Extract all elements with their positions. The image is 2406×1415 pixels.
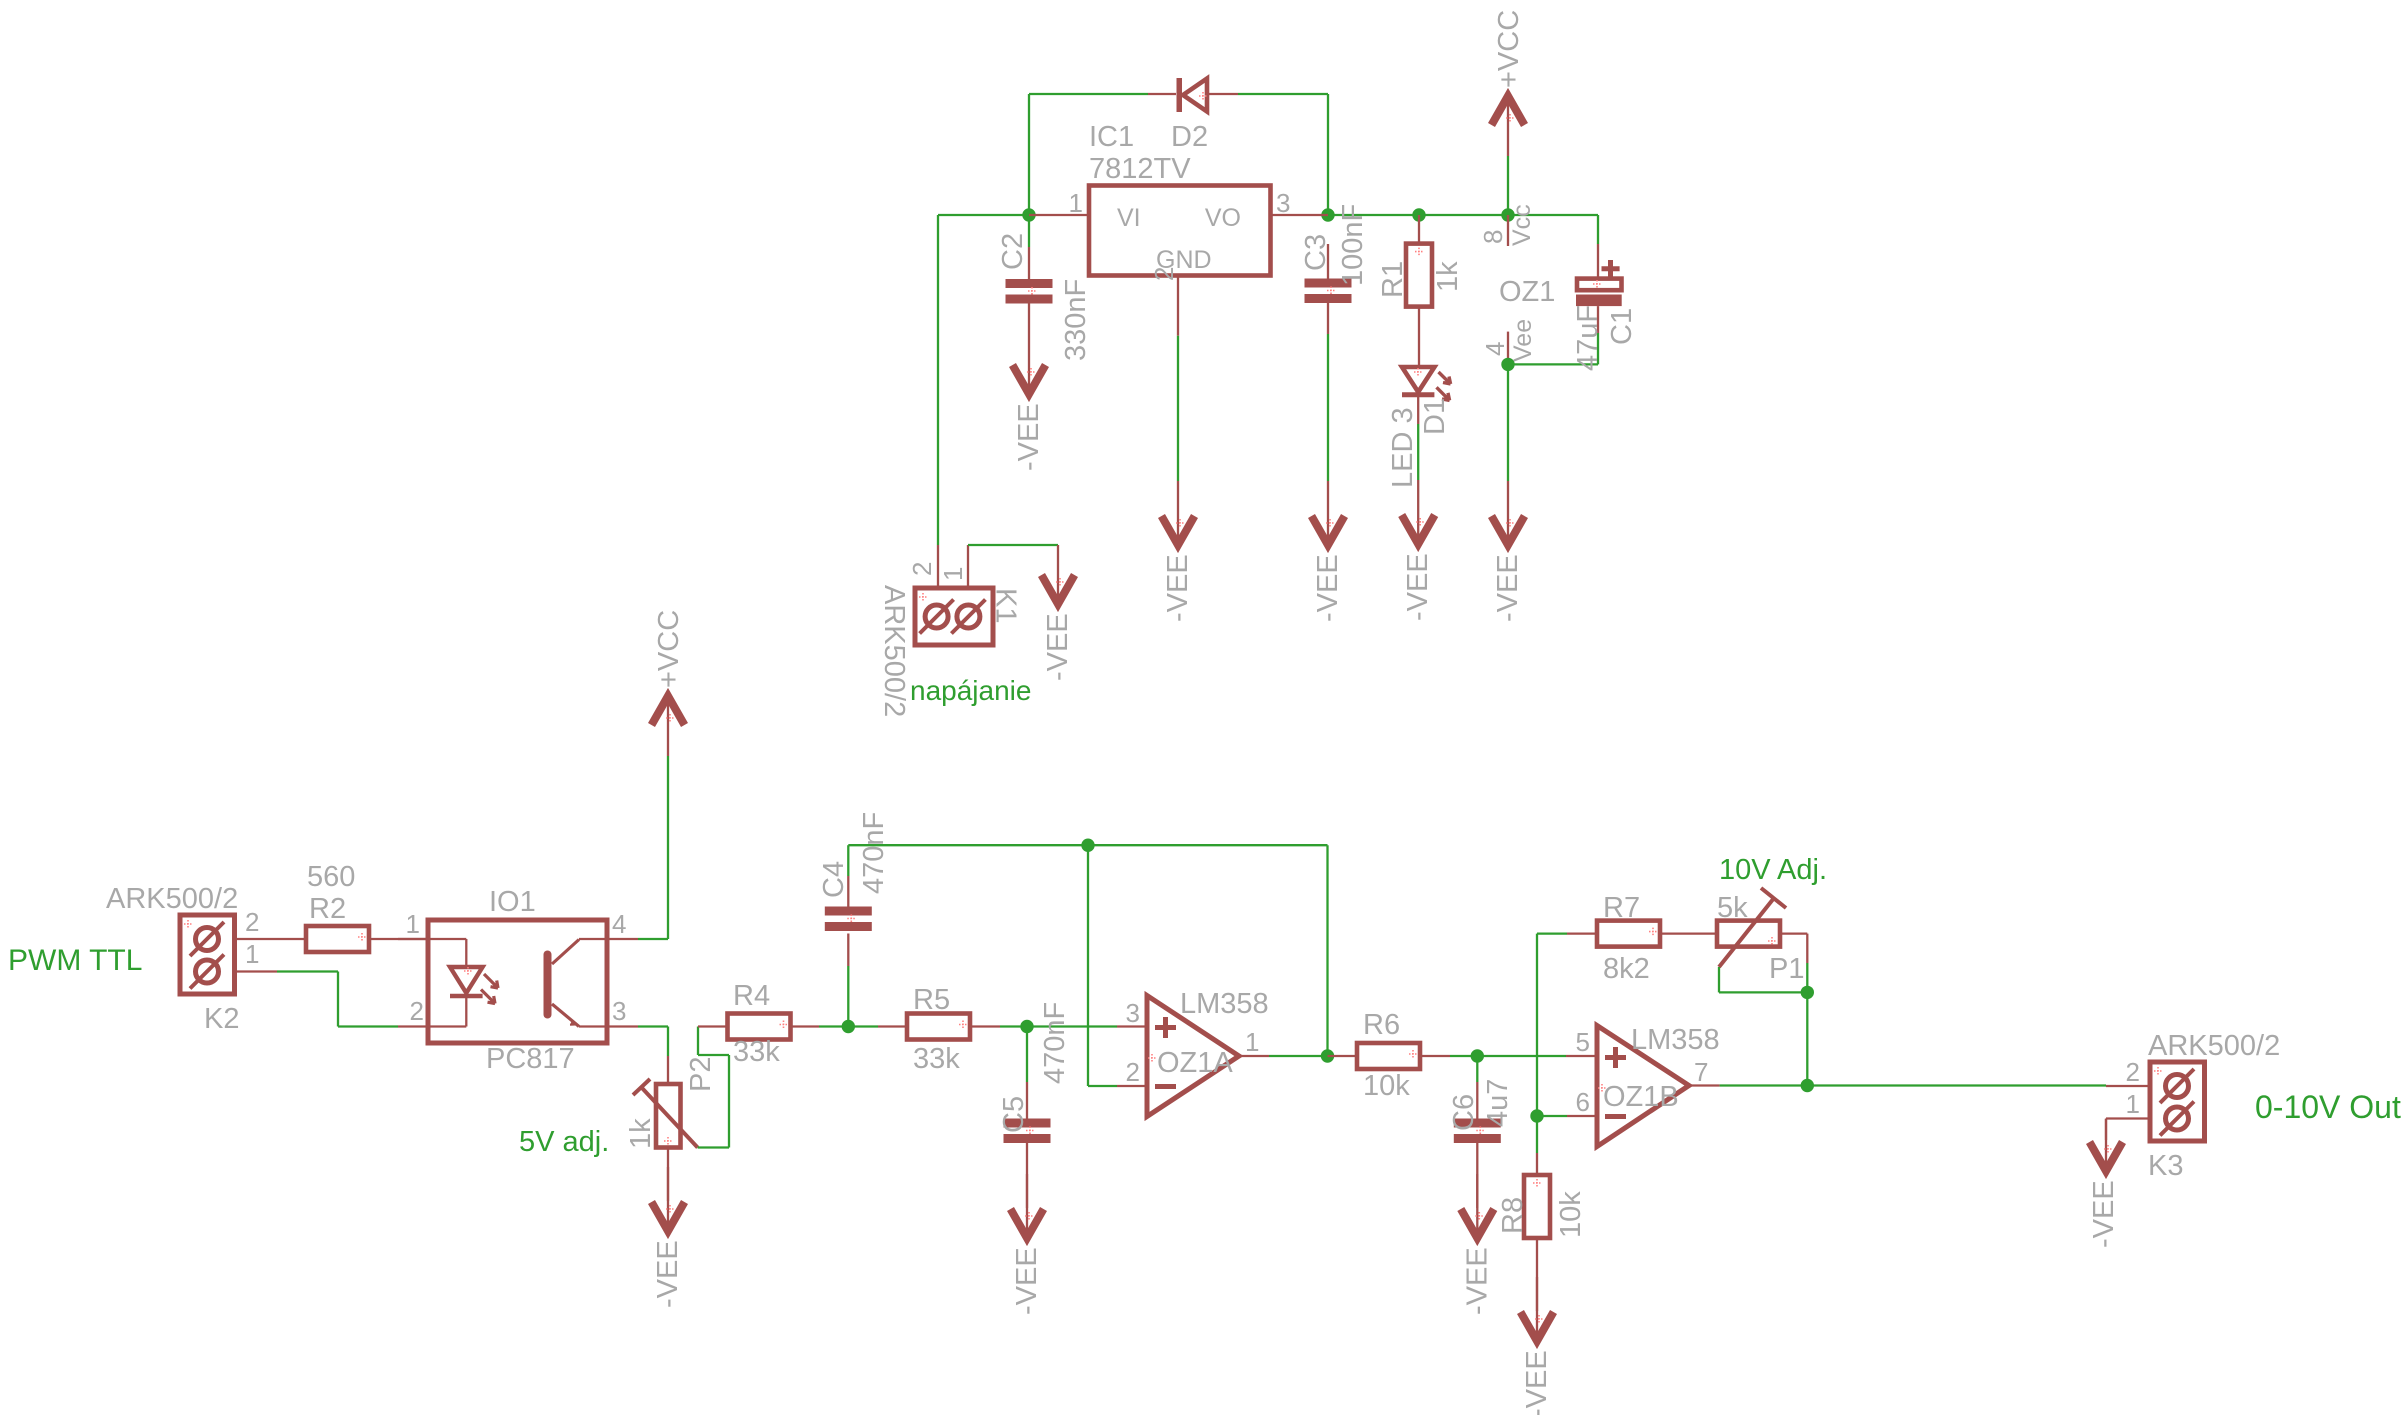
svg-text:5V adj.: 5V adj. (519, 1126, 609, 1158)
svg-text:-VEE: -VEE (1521, 1350, 1553, 1415)
supply -VEE below C3 (1312, 481, 1345, 622)
junction VIN node at IC1 pin1 (1022, 208, 1035, 221)
junction P1 node (1801, 986, 1814, 999)
svg-text:VI: VI (1117, 204, 1141, 232)
svg-text:33k: 33k (733, 1036, 780, 1068)
wire P1 wiper net (1719, 967, 1807, 992)
wire net +12V from D2 cathode to VO junction (1238, 94, 1328, 215)
svg-text:1: 1 (245, 939, 259, 969)
capacitor C4 bottom lead (847, 934, 849, 967)
resistor R8 bottom lead (1536, 1238, 1538, 1311)
svg-text:2: 2 (245, 907, 259, 937)
capacitor C2 330nF (1028, 247, 1030, 330)
svg-text:-VEE: -VEE (1402, 553, 1434, 621)
OZ1 power pin 8 Vcc (1478, 204, 1536, 246)
resistor R7 8k2 (1597, 892, 1660, 985)
svg-text:R2: R2 (309, 893, 346, 925)
optocoupler IO1 PC817 (398, 886, 638, 1075)
label napajanie (910, 675, 1031, 706)
wire net VIN from K1 pin2 up to IC1 input node (938, 215, 1029, 545)
svg-text:2: 2 (907, 562, 937, 576)
wire VIN stub down to C2 (1028, 215, 1030, 247)
svg-text:R4: R4 (733, 980, 770, 1012)
svg-text:3: 3 (1276, 188, 1290, 218)
svg-text:-VEE: -VEE (1312, 554, 1344, 622)
svg-text:6: 6 (1576, 1087, 1590, 1117)
wire feedback right leg down (1326, 845, 1328, 1056)
junction +12V at VO (1321, 208, 1334, 221)
svg-text:P2: P2 (685, 1057, 717, 1092)
svg-text:0-10V Out: 0-10V Out (2255, 1089, 2401, 1125)
svg-text:2: 2 (1149, 267, 1179, 281)
svg-text:R5: R5 (913, 984, 950, 1016)
wire R5 to op-amp pin3 (1000, 1025, 1117, 1027)
svg-text:R7: R7 (1603, 892, 1640, 924)
capacitor C6 plates (1448, 1079, 1514, 1143)
svg-text:IO1: IO1 (489, 886, 536, 918)
wire R7 to P1 (1660, 932, 1717, 934)
svg-text:IC1: IC1 (1089, 121, 1134, 153)
svg-text:OZ1: OZ1 (1499, 276, 1555, 308)
wire Vee node down to -VEE (1507, 364, 1509, 481)
wire +VCC riser (1507, 156, 1509, 215)
junction node B (R5/C5/+in) (1020, 1020, 1033, 1033)
supply -VEE below C5 (1011, 1174, 1044, 1315)
resistor R7 left stub (1567, 932, 1597, 934)
junction +12V at OZ1 Vcc (1501, 208, 1514, 221)
capacitor C6 bottom lead (1476, 1143, 1478, 1208)
svg-text:-VEE: -VEE (1013, 403, 1045, 471)
capacitor C2 plates (997, 233, 1092, 361)
wire C3 bottom to -VEE (1327, 334, 1329, 481)
resistor R8 top lead (1536, 1153, 1538, 1175)
wire IC1 GND net down (1177, 336, 1179, 481)
capacitor C3 100nF leads (1327, 244, 1329, 334)
svg-text:ARK500/2: ARK500/2 (878, 585, 910, 717)
op-amp OZ1B LM358 (1566, 1024, 1720, 1147)
svg-text:-VEE: -VEE (652, 1240, 684, 1308)
supply -VEE below R8 (1521, 1277, 1554, 1415)
svg-text:R8: R8 (1497, 1197, 1529, 1234)
capacitor C5 bottom lead (1026, 1143, 1028, 1208)
connector K1 ARK500/2 (napajanie) (878, 545, 1022, 717)
svg-text:4u7: 4u7 (1482, 1079, 1514, 1127)
svg-text:2: 2 (2126, 1057, 2140, 1087)
junction node A (R4/R5/C4) (842, 1020, 855, 1033)
svg-text:D2: D2 (1171, 121, 1208, 153)
svg-text:470nF: 470nF (858, 812, 890, 894)
wire P1 node down to output (1806, 992, 1808, 1085)
resistor R4 left stub (698, 1025, 728, 1027)
resistor R1 1k (1377, 244, 1464, 307)
svg-text:8k2: 8k2 (1603, 953, 1650, 985)
wire K2 pin1 to IO1 pin2 (277, 972, 398, 1027)
trimmer P2 top lead (667, 1056, 669, 1084)
wire feedback top rail (848, 845, 1327, 876)
svg-text:2: 2 (1126, 1057, 1140, 1087)
svg-text:33k: 33k (913, 1043, 960, 1075)
svg-text:VO: VO (1205, 204, 1241, 232)
svg-text:C5: C5 (998, 1096, 1030, 1133)
supply -VEE below K3 pin1 (2088, 1119, 2123, 1248)
junction output node (1801, 1079, 1814, 1092)
LED D1 (1387, 367, 1451, 488)
svg-text:8: 8 (1478, 230, 1508, 244)
supply -VEE at K1 (1042, 545, 1075, 681)
svg-text:C2: C2 (997, 233, 1029, 270)
capacitor C4 plates (818, 812, 890, 931)
svg-text:Vcc: Vcc (1508, 204, 1536, 246)
junction pin6 node (1530, 1109, 1543, 1122)
svg-text:10V Adj.: 10V Adj. (1719, 854, 1827, 886)
svg-text:C1: C1 (1606, 308, 1638, 345)
svg-text:1k: 1k (1432, 261, 1464, 292)
svg-text:PC817: PC817 (486, 1043, 575, 1075)
svg-text:47uF: 47uF (1572, 305, 1604, 371)
svg-text:-VEE: -VEE (1042, 613, 1074, 681)
svg-text:D1: D1 (1419, 398, 1451, 435)
resistor R5 33k (907, 984, 970, 1075)
svg-text:1: 1 (2126, 1089, 2140, 1119)
svg-text:-VEE: -VEE (1492, 554, 1524, 622)
resistor R6 left stub (1328, 1055, 1358, 1057)
wire P2 wiper to R4 (698, 1027, 729, 1148)
svg-text:K1: K1 (990, 588, 1022, 623)
supply +VCC top (1492, 10, 1526, 156)
svg-text:K3: K3 (2148, 1150, 2183, 1182)
junction +12V at R1 (1412, 208, 1425, 221)
trimmer P2 bottom lead (667, 1148, 669, 1202)
junction node C (out1/R6/feedback) (1321, 1049, 1334, 1062)
wire pin6 net vertical (1536, 934, 1538, 1153)
wire K1 pin1 to -VEE (968, 544, 1058, 546)
svg-text:1: 1 (1069, 188, 1083, 218)
svg-text:470nF: 470nF (1039, 1002, 1071, 1084)
svg-text:Vee: Vee (1509, 319, 1537, 362)
svg-text:100nF: 100nF (1337, 204, 1369, 286)
svg-text:P1: P1 (1769, 953, 1804, 985)
svg-text:1k: 1k (625, 1118, 657, 1149)
resistor R4 33k (728, 980, 791, 1068)
connector K3 ARK500/2 (0-10V output) (2106, 1030, 2280, 1182)
svg-text:560: 560 (307, 861, 355, 893)
svg-text:-VEE: -VEE (2088, 1180, 2120, 1248)
voltage regulator IC1 7812TV (1029, 121, 1328, 336)
supply -VEE below P2 (652, 1167, 685, 1308)
svg-text:C3: C3 (1300, 234, 1332, 271)
wire net +12V bus (1328, 214, 1598, 216)
supply -VEE below IC1 GND pin (1162, 481, 1195, 622)
wire P1 right down (1806, 963, 1808, 992)
svg-text:4: 4 (612, 909, 626, 939)
capacitor C4 top lead (847, 876, 849, 907)
diode D2 (reverse protection) (1148, 78, 1238, 153)
svg-text:10k: 10k (1363, 1070, 1410, 1102)
svg-text:C4: C4 (818, 861, 850, 898)
wire feedback down to pin2 (1088, 845, 1117, 1086)
junction Vee node (1501, 358, 1514, 371)
svg-text:7: 7 (1694, 1057, 1708, 1087)
label PWM TTL (8, 944, 142, 977)
label 10V Adj. (1719, 854, 1827, 886)
junction feedback tee (1081, 839, 1094, 852)
svg-text:LM358: LM358 (1631, 1024, 1720, 1056)
svg-text:7812TV: 7812TV (1089, 153, 1191, 185)
op-amp OZ1A LM358 (1117, 988, 1269, 1117)
potentiometer P1 5k (1717, 888, 1804, 985)
resistor R2 560 (306, 861, 369, 952)
resistor R5 right stub (970, 1025, 1000, 1027)
svg-text:ARK500/2: ARK500/2 (106, 883, 238, 915)
svg-text:5k: 5k (1717, 892, 1748, 924)
supply -VEE below C6 (1461, 1174, 1494, 1315)
wire OZ1A output to node C (1269, 1055, 1328, 1057)
wire P1 right lead (1780, 934, 1807, 963)
svg-text:-VEE: -VEE (1011, 1247, 1043, 1315)
svg-text:K2: K2 (204, 1003, 239, 1035)
svg-text:10k: 10k (1555, 1191, 1587, 1238)
wire IO1 pin3 to P2 top (638, 1027, 668, 1057)
wire D1 cathode to -VEE (1417, 424, 1419, 480)
resistor R5 left stub (878, 1025, 907, 1027)
svg-text:ARK500/2: ARK500/2 (2148, 1030, 2280, 1062)
wire R4 to node A (819, 1025, 878, 1027)
resistor R1 1k leads (1418, 215, 1420, 367)
svg-text:R1: R1 (1377, 261, 1409, 298)
svg-text:+VCC: +VCC (653, 610, 685, 688)
svg-text:+VCC: +VCC (1493, 10, 1525, 88)
connector K2 ARK500/2 (PWM input) (106, 883, 306, 1035)
wire +12V corner down to C1 plus lead (1597, 215, 1599, 244)
svg-text:OZ1A: OZ1A (1157, 1047, 1233, 1079)
svg-text:LM358: LM358 (1180, 988, 1269, 1020)
wire node B down to C5 (1026, 1027, 1028, 1083)
capacitor C5 top lead (1026, 1082, 1028, 1119)
supply +VCC above IO1 (652, 610, 686, 756)
svg-text:PWM TTL: PWM TTL (8, 944, 142, 977)
resistor R6 10k (1357, 1009, 1420, 1102)
supply -VEE below OZ1 Vee (1492, 481, 1525, 622)
wire Vee node to C1 minus (1508, 333, 1598, 364)
svg-text:-VEE: -VEE (1461, 1247, 1493, 1315)
label 5V adj. (519, 1126, 609, 1158)
wire net VIN up to D2 anode-side top rail (1029, 94, 1148, 215)
svg-text:5: 5 (1576, 1027, 1590, 1057)
svg-text:-VEE: -VEE (1162, 554, 1194, 622)
svg-text:2: 2 (410, 996, 424, 1026)
svg-text:napájanie: napájanie (910, 675, 1031, 706)
svg-text:4: 4 (1480, 342, 1510, 356)
supply -VEE below D1 (1402, 480, 1435, 621)
capacitor C5 plates (998, 1002, 1071, 1143)
capacitor C1 47uF electrolytic (1572, 244, 1638, 371)
svg-text:330nF: 330nF (1060, 279, 1092, 361)
svg-text:R6: R6 (1363, 1009, 1400, 1041)
svg-text:1: 1 (938, 567, 968, 581)
resistor R8 10k (1497, 1175, 1587, 1238)
svg-text:OZ1B: OZ1B (1603, 1081, 1679, 1113)
wire R6 to node D (1450, 1055, 1566, 1057)
resistor R4 right stub (791, 1025, 820, 1027)
svg-text:3: 3 (612, 996, 626, 1026)
svg-text:LED 3: LED 3 (1387, 407, 1419, 488)
wire R2 to IO1 pin1 (369, 938, 428, 940)
capacitor C6 top lead (1476, 1082, 1478, 1119)
trimmer potentiometer P2 1k (625, 1057, 717, 1149)
junction node D (R6/C6/+in2) (1471, 1049, 1484, 1062)
wire pin6 stub (1537, 1115, 1567, 1117)
supply -VEE below C2 (1013, 330, 1046, 471)
capacitor C3 plates (1300, 204, 1369, 303)
label 0-10V Out (2255, 1089, 2401, 1125)
wire output 0-10V (1720, 1084, 2106, 1086)
svg-text:C6: C6 (1448, 1094, 1480, 1131)
wire IO1 pin4 to +VCC (638, 756, 668, 939)
resistor R6 right stub (1420, 1055, 1450, 1057)
wire pin6 node to R7 (1537, 932, 1567, 934)
svg-text:3: 3 (1126, 998, 1140, 1028)
svg-text:1: 1 (1245, 1027, 1259, 1057)
OZ1 power pin 4 Vee (1480, 276, 1555, 364)
wire C4 to node A (847, 966, 849, 1027)
svg-text:1: 1 (406, 909, 420, 939)
wire node D down to C6 (1476, 1056, 1478, 1082)
